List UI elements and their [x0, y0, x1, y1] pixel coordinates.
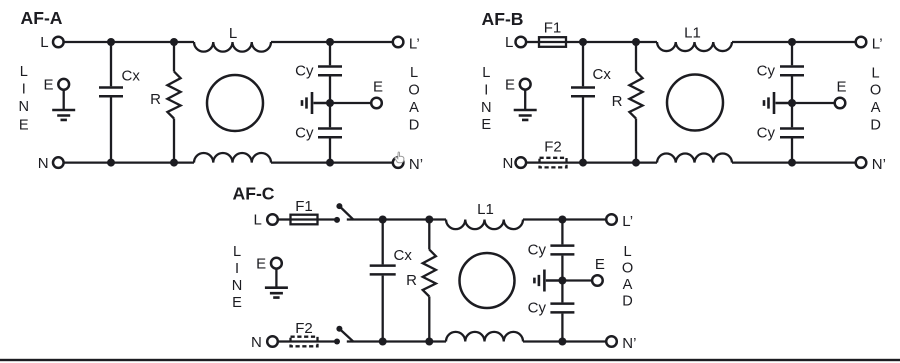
resistor R (AF-A) [167, 72, 180, 119]
junction AF-A top of Cy1 [326, 38, 334, 46]
terminal AF-A E line side [58, 79, 69, 90]
resistor R (AF-B) [629, 72, 642, 119]
junction AF-A mid node E [326, 99, 334, 107]
svg-text:L: L [229, 25, 237, 42]
junction AF-C top of Cy1 [558, 216, 566, 224]
terminal AF-C E line side [271, 258, 282, 269]
svg-text:A: A [409, 100, 419, 116]
wire AF-A Cy1 upper stem [329, 42, 331, 65]
resistor R (AF-C) [423, 250, 436, 297]
wire AF-A R lower stem [173, 119, 175, 163]
inductor winding L1 line side (AF-C) [446, 220, 523, 230]
svg-text:L: L [20, 64, 28, 80]
wire AF-C Cx lower stem [382, 276, 384, 342]
capacitor Cy1 (AF-C) [550, 246, 574, 255]
svg-text:N: N [251, 334, 262, 351]
svg-text:F2: F2 [295, 320, 313, 337]
wire AF-C Cy1 upper stem [561, 220, 563, 245]
wire AF-A top rail: coil to L' terminal [271, 41, 392, 43]
svg-text:E: E [19, 118, 29, 134]
svg-text:N’: N’ [872, 156, 886, 173]
wire AF-C Cx upper stem [382, 220, 384, 265]
terminal AF-C L' [606, 214, 617, 225]
svg-text:D: D [409, 118, 420, 134]
wire AF-A bottom rail: N terminal to coil [64, 161, 194, 163]
terminal AF-B L [516, 37, 527, 48]
capacitor Cx (AF-A) [99, 88, 123, 97]
fuse F2 (AF-B) body [540, 158, 567, 168]
capacitor Cy2 (AF-A) [318, 129, 342, 138]
wire AF-A R upper stem [173, 42, 175, 72]
svg-text:Cy: Cy [528, 242, 547, 259]
inductor winding L neutral side (AF-A) [194, 153, 271, 163]
svg-text:I: I [484, 83, 488, 99]
svg-text:Cy: Cy [295, 125, 314, 142]
wire AF-A Cx lower stem [110, 98, 112, 163]
junction AF-C bottom of Cy2 [558, 338, 566, 346]
toroid core (AF-C) [460, 253, 515, 308]
svg-text:E: E [373, 79, 383, 96]
fuse F1 (AF-C) body [291, 215, 318, 225]
svg-text:I: I [235, 261, 239, 277]
wire AF-A Cx upper stem [110, 42, 112, 86]
junction AF-C top of R [425, 216, 433, 224]
inductor winding L line side (AF-A) [194, 42, 271, 52]
svg-text:L’: L’ [622, 213, 633, 230]
svg-text:R: R [406, 272, 417, 289]
wire AF-A mid node to E terminal [330, 102, 371, 104]
svg-text:R: R [150, 91, 161, 108]
svg-text:Cy: Cy [528, 300, 547, 317]
svg-text:R: R [612, 93, 623, 110]
svg-text:Cy: Cy [757, 63, 776, 80]
svg-text:L1: L1 [684, 25, 701, 42]
svg-text:E: E [505, 77, 515, 94]
svg-text:E: E [481, 117, 491, 133]
svg-text:E: E [232, 295, 242, 311]
svg-text:AF-A: AF-A [21, 8, 63, 28]
capacitor Cx (AF-B) [571, 88, 595, 97]
wire AF-B bottom rail: N terminal to F2 [527, 161, 540, 163]
junction AF-C mid node E [558, 277, 566, 285]
wire AF-C top rail: L terminal to F1 [278, 218, 290, 220]
wire AF-C top rail: Cx node to coil [383, 218, 446, 220]
switch S2 lever [340, 329, 354, 342]
wire AF-C E stem to ground [275, 269, 277, 288]
capacitor Cx (AF-C) [370, 266, 396, 275]
wire AF-C bottom rail: Cx node to coil [383, 340, 446, 342]
wire AF-C bottom rail: switch to Cx node [347, 340, 383, 342]
junction AF-B top of R [632, 38, 640, 46]
svg-text:F1: F1 [295, 198, 313, 215]
svg-text:F2: F2 [544, 139, 562, 156]
wire AF-B mid node to Cy2 [791, 103, 793, 127]
ground (earth) (AF-A) [52, 110, 75, 120]
svg-text:L: L [40, 34, 48, 51]
wire AF-B Cy1 upper stem [791, 42, 793, 65]
terminal AF-B L' [856, 37, 867, 48]
svg-text:O: O [622, 261, 633, 277]
junction AF-B bottom of Cy2 [788, 159, 796, 167]
capacitor Cy2 (AF-C) [550, 304, 574, 313]
wire AF-A top rail: L terminal to coil [64, 41, 194, 43]
svg-text:N: N [19, 99, 30, 115]
terminal AF-C N' [606, 336, 617, 347]
junction AF-B mid node E [788, 99, 796, 107]
svg-text:Cx: Cx [122, 68, 141, 85]
svg-text:E: E [256, 256, 266, 273]
wire AF-C mid node to E terminal [562, 279, 591, 281]
wire AF-B Cx upper stem [582, 42, 584, 86]
wire AF-C top rail: coil to L' terminal [523, 218, 606, 220]
wire AF-C Cy1 to mid node [561, 256, 563, 281]
svg-text:A: A [623, 277, 633, 293]
svg-text:L: L [623, 244, 631, 260]
junction AF-A top of Cx [107, 38, 115, 46]
wire AF-B Cx lower stem [582, 98, 584, 163]
svg-text:N’: N’ [409, 156, 423, 173]
wire AF-B Cy1 to mid node [791, 77, 793, 104]
wire AF-C R lower stem [428, 297, 430, 342]
switch S1 pole dot [336, 203, 342, 209]
wire AF-B top rail: L terminal to F1 [527, 41, 539, 43]
ground (chassis, rotated) (AF-B) [764, 92, 792, 114]
wire AF-B R lower stem [635, 119, 637, 163]
wire AF-C bottom rail: coil to N' terminal [523, 340, 606, 342]
junction AF-B bottom of R [632, 159, 640, 167]
fuse F2 (AF-C) body [291, 337, 318, 347]
svg-text:D: D [622, 293, 633, 309]
terminal AF-C L [267, 214, 278, 225]
switch S2 contact dot [334, 339, 340, 345]
svg-text:L: L [233, 244, 241, 260]
ground (chassis, rotated) (AF-A) [302, 92, 330, 114]
svg-text:Cx: Cx [394, 247, 413, 264]
svg-text:N: N [38, 155, 49, 172]
junction AF-A bottom of R [170, 159, 178, 167]
terminal AF-B E line side [520, 79, 531, 90]
junction AF-A bottom of Cy2 [326, 159, 334, 167]
ground (earth) (AF-B) [514, 110, 537, 120]
toroid core (AF-B) [667, 75, 723, 131]
inductor winding L1 line side (AF-B) [657, 42, 732, 51]
wire AF-A bottom rail: coil to N' terminal [271, 161, 392, 163]
wire AF-C top rail: F1 to switch contact [291, 218, 338, 220]
terminal AF-B N' [856, 157, 867, 168]
wire AF-B E stem to ground [524, 90, 526, 110]
capacitor Cy2 (AF-B) [780, 129, 804, 138]
svg-text:L: L [482, 65, 490, 81]
terminal AF-B E load side [835, 98, 846, 109]
svg-text:L’: L’ [872, 36, 883, 53]
svg-text:L: L [253, 212, 261, 229]
junction AF-B top of Cx [579, 38, 587, 46]
fuse F1 (AF-B) body [539, 37, 566, 47]
capacitor Cy1 (AF-A) [318, 67, 342, 76]
wire AF-B mid node to E terminal [792, 102, 834, 104]
svg-text:D: D [870, 117, 881, 133]
wire AF-C bottom rail: N terminal to F2 [278, 340, 290, 342]
svg-text:N’: N’ [622, 335, 636, 352]
terminal AF-A E load side [371, 98, 382, 109]
svg-text:O: O [408, 82, 419, 98]
inductor winding L1 neutral side (AF-C) [446, 332, 523, 342]
svg-text:E: E [43, 77, 53, 94]
wire AF-A Cy2 lower stem [329, 139, 331, 163]
svg-text:AF-B: AF-B [482, 9, 524, 29]
terminal AF-A N [53, 157, 64, 168]
svg-text:L: L [872, 66, 880, 82]
svg-text:I: I [22, 82, 26, 98]
ground (chassis, rotated) (AF-C) [534, 270, 562, 292]
svg-text:Cy: Cy [295, 63, 314, 80]
terminal AF-C E load side [592, 275, 603, 286]
capacitor Cy1 (AF-B) [780, 67, 804, 76]
junction AF-B bottom of Cx [579, 159, 587, 167]
wire AF-B bottom rail: Cx node to coil [583, 161, 657, 163]
svg-text:O: O [870, 83, 881, 99]
wire AF-B bottom rail: coil to N' terminal [732, 161, 855, 163]
terminal AF-C N [267, 336, 278, 347]
svg-text:A: A [871, 100, 881, 116]
junction AF-C bottom of R [425, 338, 433, 346]
junction AF-C bottom of Cx [379, 338, 387, 346]
wire AF-B top rail: Cx node to coil [583, 41, 657, 43]
switch S2 pole dot [336, 326, 342, 332]
svg-text:N: N [503, 155, 514, 172]
svg-text:L: L [505, 34, 513, 51]
svg-text:Cy: Cy [757, 125, 776, 142]
svg-text:E: E [836, 79, 846, 96]
svg-text:F1: F1 [544, 19, 562, 36]
switch S1 lever [340, 207, 354, 220]
wire AF-C R upper stem [428, 220, 430, 250]
wire AF-B Cy2 lower stem [791, 139, 793, 163]
svg-text:AF-C: AF-C [233, 184, 275, 204]
wire AF-B R upper stem [635, 42, 637, 72]
junction AF-A top of R [170, 38, 178, 46]
wire AF-B top rail: F1 to Cx node [539, 41, 583, 43]
svg-text:L: L [410, 65, 418, 81]
svg-text:Cx: Cx [593, 66, 612, 83]
ground (earth) (AF-C) [265, 288, 288, 298]
wire AF-A mid node to Cy2 [329, 103, 331, 127]
wire AF-B bottom rail: F2 to Cx node [540, 161, 584, 163]
switch S1 contact dot [334, 217, 340, 223]
junction AF-A bottom of Cx [107, 159, 115, 167]
toroid core (AF-A) [207, 75, 263, 131]
svg-text:N: N [481, 100, 492, 116]
wire AF-C top rail: switch to Cx node [347, 218, 383, 220]
svg-text:E: E [595, 256, 605, 273]
wire AF-A Cy1 to mid node [329, 77, 331, 104]
junction AF-B top of Cy1 [788, 38, 796, 46]
terminal AF-B N [516, 157, 527, 168]
wire AF-B top rail: coil to L' terminal [732, 41, 855, 43]
terminal AF-A N' [393, 157, 404, 168]
terminal AF-A L [53, 37, 64, 48]
junction AF-C top of Cx [379, 216, 387, 224]
wire AF-A E stem to ground [63, 90, 65, 110]
terminal AF-A L' [393, 37, 404, 48]
svg-text:L’: L’ [409, 36, 420, 53]
wire AF-C mid node to Cy2 [561, 281, 563, 303]
inductor winding L1 neutral side (AF-B) [657, 154, 732, 163]
cursor artifact over AF-A N terminal (hand pointer) [395, 152, 404, 163]
bottom separator rule [0, 359, 900, 361]
svg-text:N: N [232, 278, 243, 294]
svg-text:L1: L1 [477, 201, 494, 218]
wire AF-C bottom rail: F2 to switch contact [291, 340, 338, 342]
wire AF-C Cy2 lower stem [561, 314, 563, 342]
